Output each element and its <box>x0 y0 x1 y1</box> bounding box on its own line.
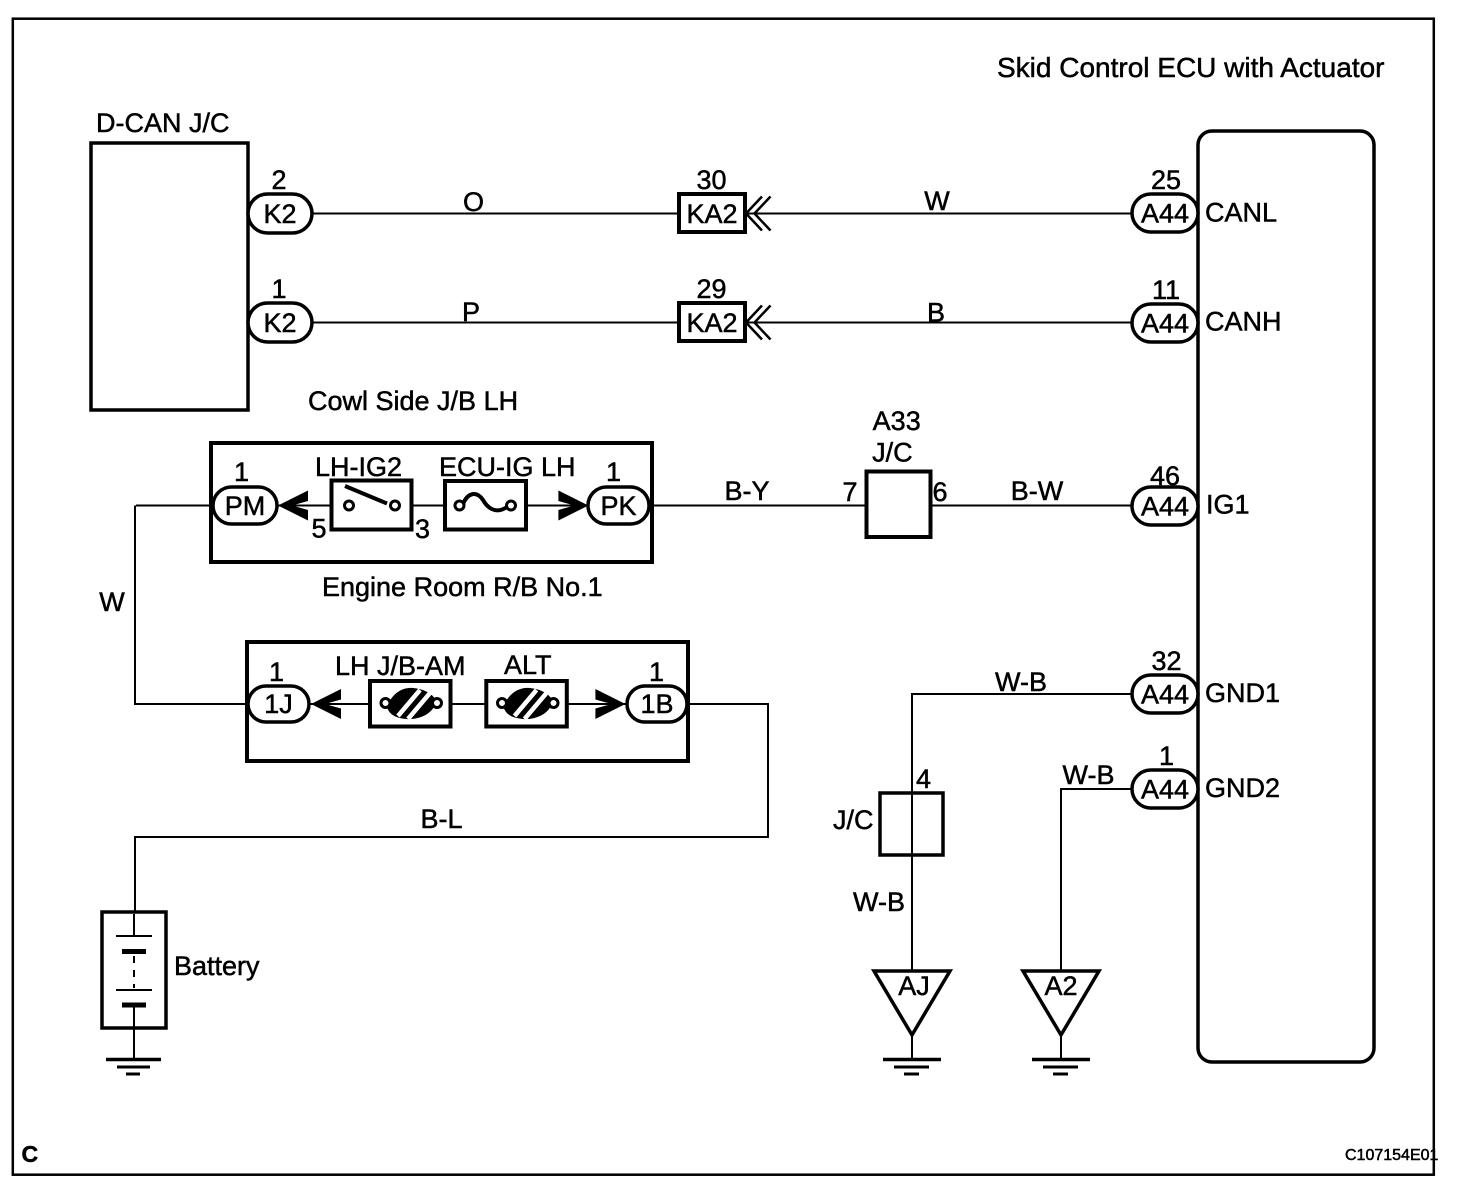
svg-text:C: C <box>22 1141 39 1167</box>
svg-text:7: 7 <box>842 477 857 507</box>
svg-text:1: 1 <box>649 657 664 687</box>
svg-text:LH J/B-AM: LH J/B-AM <box>335 651 466 681</box>
svg-text:3: 3 <box>415 514 430 544</box>
svg-text:A44: A44 <box>1141 775 1189 805</box>
svg-text:CANL: CANL <box>1205 198 1277 228</box>
svg-text:K2: K2 <box>263 199 296 229</box>
svg-text:O: O <box>463 187 484 217</box>
svg-text:4: 4 <box>916 764 931 794</box>
svg-text:A44: A44 <box>1141 309 1189 339</box>
svg-text:A2: A2 <box>1044 971 1077 1001</box>
svg-text:LH-IG2: LH-IG2 <box>315 452 402 482</box>
svg-text:AJ: AJ <box>898 971 930 1001</box>
svg-text:A44: A44 <box>1141 680 1189 710</box>
svg-text:30: 30 <box>696 165 726 195</box>
svg-text:W: W <box>99 587 125 617</box>
svg-text:B-L: B-L <box>420 804 462 834</box>
svg-text:PK: PK <box>600 491 636 521</box>
svg-text:1: 1 <box>1159 741 1174 771</box>
svg-text:CANH: CANH <box>1205 307 1282 337</box>
svg-text:Engine Room R/B No.1: Engine Room R/B No.1 <box>322 572 603 602</box>
svg-text:C107154E01: C107154E01 <box>1345 1147 1439 1164</box>
svg-text:25: 25 <box>1151 165 1181 195</box>
svg-text:1: 1 <box>271 274 286 304</box>
svg-text:A44: A44 <box>1141 492 1189 522</box>
svg-text:2: 2 <box>271 165 286 195</box>
svg-text:W-B: W-B <box>995 667 1047 697</box>
svg-text:W-B: W-B <box>853 887 905 917</box>
svg-text:ALT: ALT <box>504 650 552 680</box>
svg-text:1: 1 <box>269 657 284 687</box>
svg-text:Battery: Battery <box>174 951 260 981</box>
svg-text:46: 46 <box>1150 461 1180 491</box>
svg-text:B: B <box>927 298 945 328</box>
svg-text:1: 1 <box>606 457 621 487</box>
svg-text:B-Y: B-Y <box>724 476 769 506</box>
svg-text:D-CAN J/C: D-CAN J/C <box>96 108 230 138</box>
svg-text:A44: A44 <box>1141 199 1189 229</box>
svg-text:ECU-IG LH: ECU-IG LH <box>439 452 576 482</box>
svg-text:GND1: GND1 <box>1205 678 1280 708</box>
svg-text:KA2: KA2 <box>686 199 737 229</box>
svg-text:6: 6 <box>932 477 947 507</box>
svg-text:PM: PM <box>225 491 266 521</box>
svg-text:32: 32 <box>1151 646 1181 676</box>
svg-text:K2: K2 <box>263 308 296 338</box>
svg-text:KA2: KA2 <box>686 308 737 338</box>
svg-text:29: 29 <box>696 274 726 304</box>
svg-text:Cowl Side J/B LH: Cowl Side J/B LH <box>308 386 518 416</box>
svg-text:P: P <box>462 297 480 327</box>
svg-text:W: W <box>924 186 950 216</box>
svg-text:1J: 1J <box>264 689 293 719</box>
svg-text:5: 5 <box>311 514 326 544</box>
svg-text:J/C: J/C <box>833 805 874 835</box>
svg-text:Skid Control ECU with Actuator: Skid Control ECU with Actuator <box>997 52 1385 83</box>
svg-text:B-W: B-W <box>1011 476 1064 506</box>
svg-text:W-B: W-B <box>1063 760 1115 790</box>
svg-text:1B: 1B <box>640 689 673 719</box>
svg-text:J/C: J/C <box>872 438 913 468</box>
svg-text:1: 1 <box>234 457 249 487</box>
svg-text:11: 11 <box>1152 275 1180 305</box>
svg-text:A33: A33 <box>873 406 921 436</box>
svg-text:IG1: IG1 <box>1206 490 1250 520</box>
svg-text:GND2: GND2 <box>1205 773 1280 803</box>
